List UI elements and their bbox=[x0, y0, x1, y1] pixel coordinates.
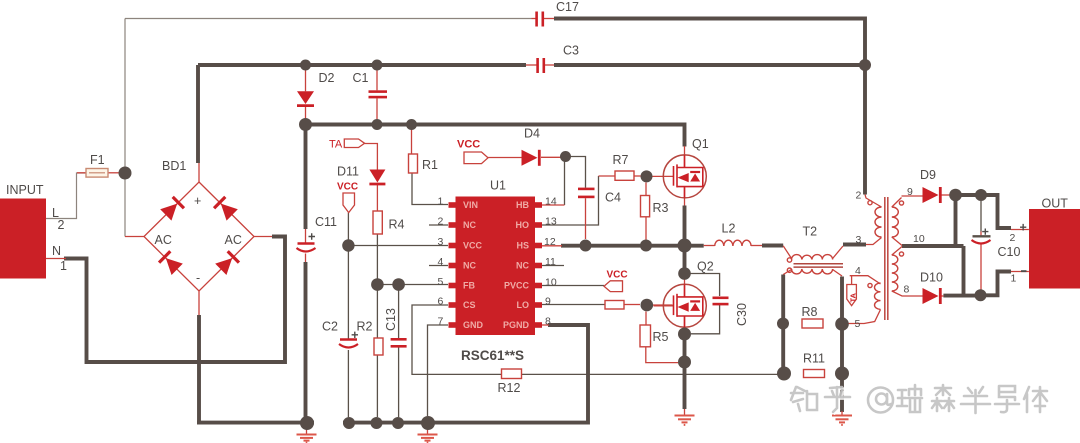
svg-text:GND: GND bbox=[463, 320, 484, 330]
svg-text:CS: CS bbox=[463, 300, 476, 310]
svg-text:D4: D4 bbox=[524, 127, 540, 141]
svg-text:9: 9 bbox=[545, 296, 551, 308]
svg-text:R12: R12 bbox=[498, 381, 521, 395]
svg-text:N: N bbox=[52, 244, 61, 258]
svg-text:C13: C13 bbox=[384, 308, 398, 331]
svg-text:VCC: VCC bbox=[463, 241, 483, 251]
svg-text:R7: R7 bbox=[613, 153, 629, 167]
svg-text:TA: TA bbox=[849, 292, 858, 302]
svg-text:HS: HS bbox=[516, 241, 529, 251]
svg-text:C2: C2 bbox=[322, 320, 338, 334]
svg-text:R5: R5 bbox=[653, 330, 669, 344]
svg-text:BD1: BD1 bbox=[162, 159, 186, 173]
svg-text:6: 6 bbox=[438, 296, 444, 308]
svg-text:VIN: VIN bbox=[463, 200, 478, 210]
svg-text:PGND: PGND bbox=[503, 320, 530, 330]
svg-text:2: 2 bbox=[856, 190, 862, 202]
svg-text:9: 9 bbox=[907, 186, 913, 198]
svg-text:C30: C30 bbox=[735, 303, 749, 326]
svg-text:FB: FB bbox=[463, 281, 475, 291]
svg-text:C10: C10 bbox=[998, 245, 1021, 259]
svg-text:Q2: Q2 bbox=[697, 260, 714, 274]
svg-text:F1: F1 bbox=[90, 153, 105, 167]
svg-text:HO: HO bbox=[516, 220, 530, 230]
svg-text:U1: U1 bbox=[490, 179, 506, 193]
svg-text:VCC: VCC bbox=[607, 270, 628, 281]
svg-text:VCC: VCC bbox=[457, 139, 480, 151]
svg-text:T2: T2 bbox=[803, 225, 818, 239]
svg-text:HB: HB bbox=[516, 200, 529, 210]
svg-text:1: 1 bbox=[1011, 273, 1017, 285]
svg-text:R8: R8 bbox=[802, 305, 818, 319]
svg-text:3: 3 bbox=[856, 234, 862, 246]
svg-text:1: 1 bbox=[438, 196, 444, 208]
svg-text:L2: L2 bbox=[722, 222, 736, 236]
svg-text:NC: NC bbox=[463, 220, 476, 230]
svg-text:VCC: VCC bbox=[337, 182, 358, 193]
svg-text:14: 14 bbox=[545, 196, 557, 208]
svg-text:INPUT: INPUT bbox=[6, 183, 44, 197]
svg-text:13: 13 bbox=[545, 216, 557, 228]
svg-text:R3: R3 bbox=[653, 201, 669, 215]
svg-text:NC: NC bbox=[516, 261, 529, 271]
svg-text:LO: LO bbox=[517, 300, 530, 310]
svg-text:Q1: Q1 bbox=[692, 137, 709, 151]
svg-text:10: 10 bbox=[545, 277, 557, 289]
svg-text:4: 4 bbox=[438, 256, 444, 268]
svg-text:PVCC: PVCC bbox=[504, 281, 530, 291]
svg-text:NC: NC bbox=[463, 261, 476, 271]
svg-text:C4: C4 bbox=[605, 191, 621, 205]
svg-text:+: + bbox=[1020, 221, 1027, 235]
svg-text:D2: D2 bbox=[319, 71, 335, 85]
svg-text:12: 12 bbox=[544, 236, 556, 248]
svg-text:TA: TA bbox=[329, 139, 343, 151]
svg-text:R4: R4 bbox=[389, 218, 405, 232]
svg-text:R2: R2 bbox=[357, 320, 373, 334]
svg-text:11: 11 bbox=[545, 256, 556, 268]
svg-text:OUT: OUT bbox=[1042, 197, 1069, 211]
svg-text:1: 1 bbox=[60, 259, 67, 273]
svg-text:7: 7 bbox=[438, 316, 444, 328]
svg-text:R11: R11 bbox=[803, 352, 825, 366]
svg-text:2: 2 bbox=[58, 218, 65, 232]
svg-text:10: 10 bbox=[913, 233, 925, 245]
svg-text:AC: AC bbox=[225, 233, 242, 247]
svg-text:AC: AC bbox=[155, 233, 172, 247]
svg-text:3: 3 bbox=[438, 236, 444, 248]
svg-text:2: 2 bbox=[1010, 232, 1016, 244]
svg-text:2: 2 bbox=[438, 216, 444, 228]
svg-text:C1: C1 bbox=[353, 71, 369, 85]
svg-text:R1: R1 bbox=[422, 158, 438, 172]
svg-text:5: 5 bbox=[438, 276, 444, 288]
svg-text:C3: C3 bbox=[563, 44, 579, 58]
svg-text:RSC61**S: RSC61**S bbox=[461, 348, 524, 363]
svg-text:8: 8 bbox=[904, 284, 910, 296]
svg-text:8: 8 bbox=[545, 316, 551, 328]
svg-text:D9: D9 bbox=[920, 168, 936, 182]
svg-text:4: 4 bbox=[855, 265, 861, 277]
svg-text:C11: C11 bbox=[315, 215, 337, 229]
svg-text:-: - bbox=[196, 271, 200, 285]
svg-text:+: + bbox=[194, 194, 201, 208]
svg-text:D11: D11 bbox=[337, 165, 359, 179]
svg-text:C17: C17 bbox=[556, 0, 579, 14]
svg-text:D10: D10 bbox=[920, 271, 943, 285]
svg-text:5: 5 bbox=[855, 318, 861, 330]
